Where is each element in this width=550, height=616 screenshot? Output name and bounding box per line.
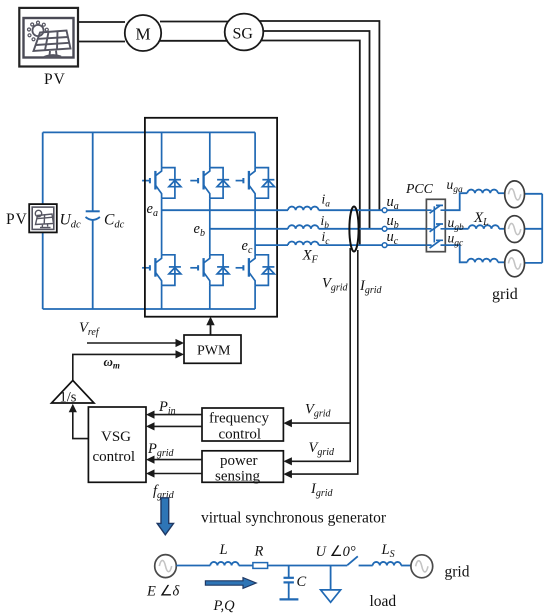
arrow power sensing to VSG (1) (146, 456, 202, 464)
wire inverter leg 2 (209, 132, 211, 309)
capacitor C branch (280, 566, 299, 600)
integrator 1/s triangle (52, 380, 95, 403)
wire inverter leg 1 (161, 132, 163, 309)
svg-text:ωm: ωm (104, 354, 120, 371)
arrow frequency control to VSG (1) (146, 411, 202, 419)
svg-text:XF: XF (302, 248, 319, 266)
inductor XF phase a (288, 207, 319, 211)
svg-text:Vgrid: Vgrid (309, 440, 336, 458)
inductor LS (373, 562, 401, 566)
PV source icon (32, 207, 54, 229)
arrowhead Vgrid into frequency control (283, 419, 292, 427)
inductor XL phase c (467, 259, 498, 263)
PV icon: solar panel (34, 31, 71, 58)
wire Vgrid branch to frequency control (291, 422, 350, 424)
svg-text:ua: ua (387, 194, 399, 212)
wire SG to phase c node (inner corner) (258, 41, 360, 245)
transistor S6 (phase b lower IGBT) (190, 255, 229, 286)
wire coil b to source (499, 228, 505, 230)
arrowhead Igrid into power sensing (283, 470, 292, 478)
arrowhead Vgrid into power sensing (283, 457, 292, 465)
svg-text:SG: SG (233, 26, 254, 43)
source E circle (155, 555, 177, 578)
svg-text:uc: uc (387, 229, 399, 247)
arrowhead into integrator (69, 404, 77, 413)
PCC box (426, 199, 445, 251)
PV station inner icon frame (24, 18, 74, 58)
breaker pole a (426, 205, 445, 213)
svg-text:P,Q: P,Q (213, 598, 236, 614)
breaker link bar (433, 206, 435, 242)
power sensing box (202, 451, 283, 483)
wire source b to bus (524, 228, 542, 230)
node ub (382, 226, 387, 231)
inductor XL phase b (469, 225, 500, 229)
transistor S4 (phase a lower IGBT) (142, 255, 181, 286)
wire grid phase b (445, 228, 468, 230)
svg-text:grid: grid (492, 286, 518, 303)
wire R to switch (268, 565, 348, 567)
wire dc bus left vertical (42, 132, 44, 309)
frequency control box (202, 408, 283, 441)
wire phase b output (210, 228, 288, 230)
svg-text:control: control (93, 449, 136, 465)
arrow frequency control to VSG (2) (146, 422, 202, 430)
svg-text:load: load (370, 593, 397, 610)
inverter box (145, 118, 277, 317)
svg-text:1/s: 1/s (60, 390, 77, 406)
svg-text:C: C (297, 574, 307, 590)
arrowhead omega_m into PWM (176, 350, 185, 358)
svg-text:Igrid: Igrid (310, 481, 334, 499)
wire grid phase a riser (445, 193, 467, 210)
svg-text:virtual synchronous generator: virtual synchronous generator (201, 510, 387, 527)
big blue arrow (157, 498, 173, 535)
wire dc bus top (43, 131, 255, 133)
svg-text:M: M (136, 25, 151, 44)
wire omega_m from integrator (73, 354, 176, 380)
arrow PWM to inverter (206, 317, 214, 336)
svg-text:power: power (220, 453, 258, 469)
inductor XF phase b (288, 225, 319, 229)
transistor S2 (phase c lower IGBT) (236, 255, 275, 286)
wire M to SG (bottom) (160, 40, 230, 42)
wire Vgrid sense vertical (291, 248, 350, 461)
svg-text:Cdc: Cdc (104, 212, 125, 231)
svg-text:sensing: sensing (215, 469, 261, 485)
node uc (382, 243, 387, 248)
wire inverter leg 3 (254, 132, 256, 309)
svg-text:uga: uga (447, 177, 464, 195)
wire coil a to source (498, 192, 505, 194)
svg-text:Pgrid: Pgrid (147, 441, 175, 459)
svg-text:E ∠δ: E ∠δ (146, 584, 179, 600)
synchronous generator SG circle (225, 14, 264, 51)
resistor R (253, 563, 268, 569)
grid source circle (bottom) (411, 555, 433, 578)
wire source c to bus (524, 262, 542, 264)
wire SG to phase a node (outer corner) (258, 21, 379, 211)
svg-text:Igrid: Igrid (359, 278, 383, 296)
wire LS to grid source (401, 565, 411, 567)
svg-text:LS: LS (381, 542, 395, 560)
wire grid right bus (541, 194, 543, 263)
inductor XL phase a (467, 190, 498, 194)
svg-text:ea: ea (147, 201, 158, 219)
transistor S5 (phase c upper IGBT) (236, 168, 275, 199)
arrow P,Q (205, 578, 256, 589)
svg-text:Vgrid: Vgrid (305, 402, 332, 420)
svg-text:Udc: Udc (60, 212, 81, 231)
arrow Vref into PWM (87, 339, 184, 347)
transistor S1 (phase a upper IGBT) (142, 168, 181, 199)
transistor S3 (phase b upper IGBT) (190, 168, 229, 199)
wire grid phase c dropper (445, 245, 467, 262)
breaker pole c (426, 240, 445, 248)
wire Cdc branch lower (92, 220, 94, 309)
wire M to SG (top) (160, 21, 230, 23)
wire switch to LS (359, 565, 373, 567)
node ua (382, 208, 387, 213)
grid source c (505, 250, 525, 277)
svg-text:VSG: VSG (101, 429, 131, 445)
wire SG to phase b node (middle corner) (262, 31, 370, 229)
inductor XF phase c (288, 241, 319, 245)
wire dc bus bottom (43, 308, 255, 310)
wire PV box to motor M (bottom) (78, 41, 125, 43)
wire phase b to PCC (319, 228, 427, 230)
svg-text:PV: PV (44, 71, 66, 88)
wire VSG to integrator (73, 411, 89, 439)
motor M circle (125, 15, 161, 51)
wire Igrid sense vertical (291, 250, 358, 474)
svg-text:ia: ia (322, 192, 331, 210)
capacitor Cdc (86, 211, 100, 220)
svg-text:L: L (219, 542, 228, 558)
wire Cdc branch upper (92, 132, 94, 211)
svg-text:XL: XL (473, 210, 489, 228)
wire E to L (176, 565, 210, 567)
load branch triangle (321, 566, 341, 603)
PV source box (29, 204, 57, 232)
wire phase c output (255, 244, 288, 246)
svg-text:Vref: Vref (79, 320, 100, 338)
wire source a to bus (524, 193, 542, 195)
svg-text:R: R (254, 544, 264, 560)
svg-text:ec: ec (242, 238, 253, 256)
inductor L (210, 562, 238, 566)
svg-text:U ∠0°: U ∠0° (316, 544, 356, 560)
svg-text:Pin: Pin (158, 399, 176, 417)
switch blade (347, 556, 358, 565)
wire PV box to motor M (top) (78, 21, 125, 23)
measurement ellipse (349, 207, 358, 252)
PV icon: sun/gear (28, 21, 49, 41)
grid source a (505, 181, 525, 208)
svg-text:grid: grid (445, 564, 470, 581)
wire coil c to source (498, 261, 505, 263)
wire phase a output (162, 209, 288, 211)
svg-text:PCC: PCC (405, 181, 434, 196)
svg-text:PWM: PWM (197, 344, 231, 359)
svg-text:frequency: frequency (209, 411, 269, 427)
VSG control box (88, 407, 146, 482)
wire L to R (239, 565, 253, 567)
wire phase c to PCC (319, 244, 427, 246)
svg-text:eb: eb (194, 221, 205, 239)
PWM box (184, 335, 241, 363)
svg-text:control: control (219, 427, 262, 443)
svg-text:PV: PV (6, 211, 28, 228)
breaker pole b (426, 224, 445, 232)
wire phase a to PCC (319, 209, 427, 211)
arrow power sensing to VSG (2) (146, 469, 202, 477)
grid source b (505, 216, 525, 243)
svg-text:Vgrid: Vgrid (322, 276, 349, 294)
PV station box (19, 8, 78, 67)
